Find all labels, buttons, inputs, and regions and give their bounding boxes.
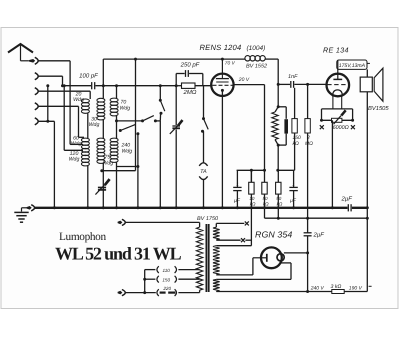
svg-text:175V,13mA: 175V,13mA bbox=[339, 63, 366, 69]
svg-text:kΩ: kΩ bbox=[263, 202, 269, 207]
svg-text:Wdg: Wdg bbox=[89, 122, 100, 128]
svg-text:Wdg: Wdg bbox=[103, 161, 114, 167]
svg-text:3 kΩ: 3 kΩ bbox=[331, 284, 342, 290]
svg-text:2MΩ: 2MΩ bbox=[183, 89, 197, 96]
svg-text:MΩ: MΩ bbox=[305, 141, 313, 147]
svg-text:220: 220 bbox=[162, 286, 171, 291]
svg-text:150: 150 bbox=[162, 278, 170, 283]
svg-text:Wdg: Wdg bbox=[73, 97, 84, 103]
svg-text:110: 110 bbox=[163, 268, 171, 273]
svg-text:BV 1552: BV 1552 bbox=[246, 64, 267, 70]
svg-text:BV1505: BV1505 bbox=[368, 105, 389, 112]
svg-text:µF: µF bbox=[234, 198, 241, 204]
svg-text:kΩ: kΩ bbox=[250, 202, 256, 207]
svg-text:kΩ: kΩ bbox=[277, 202, 283, 207]
svg-text:Wdg: Wdg bbox=[122, 149, 133, 155]
svg-text:50: 50 bbox=[276, 196, 282, 201]
svg-text:Wdg: Wdg bbox=[71, 141, 82, 147]
svg-text:70 V: 70 V bbox=[225, 60, 236, 66]
svg-text:10: 10 bbox=[249, 196, 255, 201]
svg-text:190 V: 190 V bbox=[349, 286, 363, 292]
svg-text:WL 52 und 31 WL: WL 52 und 31 WL bbox=[55, 243, 182, 263]
svg-text:(1004): (1004) bbox=[247, 45, 266, 52]
svg-text:100 pF: 100 pF bbox=[79, 73, 98, 80]
svg-text:240 V: 240 V bbox=[310, 286, 325, 292]
svg-text:6000Ω: 6000Ω bbox=[333, 125, 349, 131]
svg-text:TA: TA bbox=[200, 169, 207, 175]
svg-text:20 V: 20 V bbox=[238, 77, 250, 83]
svg-text:µF: µF bbox=[290, 198, 297, 204]
svg-text:1nF: 1nF bbox=[288, 74, 298, 80]
svg-text:2µF: 2µF bbox=[313, 232, 325, 239]
svg-text:2µF: 2µF bbox=[341, 196, 353, 203]
svg-text:RENS 1204: RENS 1204 bbox=[200, 43, 242, 52]
svg-text:250 pF: 250 pF bbox=[180, 62, 200, 69]
svg-text:RGN 354: RGN 354 bbox=[255, 230, 292, 240]
svg-text:50: 50 bbox=[262, 196, 268, 201]
svg-text:RE 134: RE 134 bbox=[323, 46, 349, 55]
svg-text:kΩ: kΩ bbox=[293, 141, 300, 147]
svg-text:Lumophon: Lumophon bbox=[59, 231, 106, 243]
svg-text:Wdg: Wdg bbox=[120, 106, 131, 112]
svg-text:Wdg: Wdg bbox=[69, 157, 80, 163]
svg-text:BV 1750: BV 1750 bbox=[197, 216, 219, 222]
